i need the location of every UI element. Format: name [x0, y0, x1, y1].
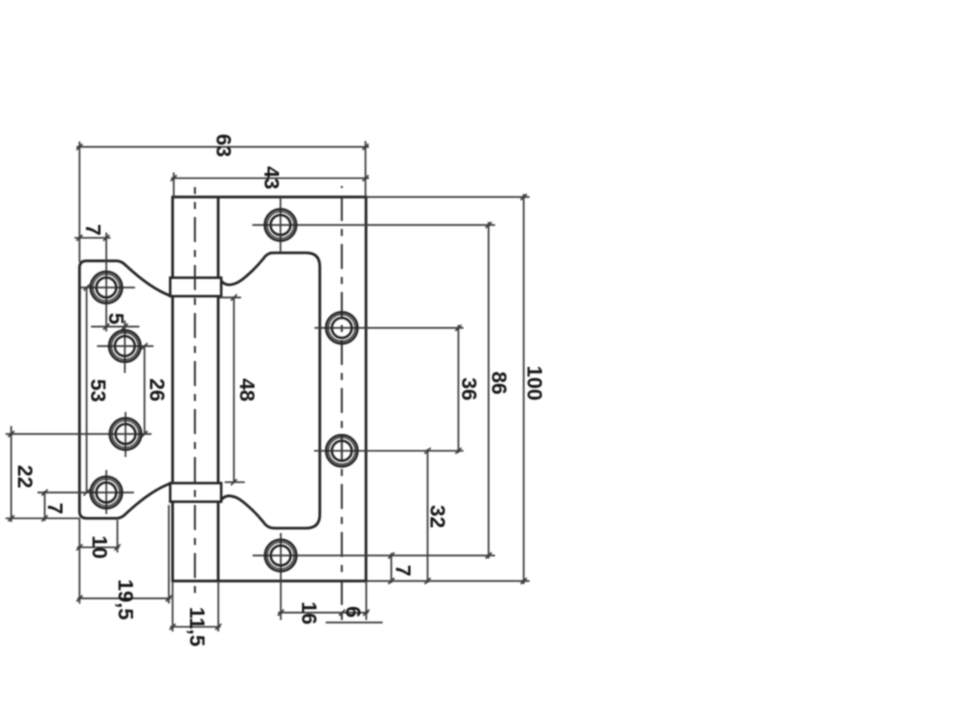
- dimension line 86: [488, 222, 490, 559]
- svg-text:7: 7: [43, 503, 66, 515]
- hole P1 vertical centerline: [280, 199, 282, 252]
- hole P2 horizontal extension: [315, 327, 464, 329]
- hole L2: [109, 330, 140, 361]
- hole P3: [326, 435, 357, 466]
- svg-text:11,5: 11,5: [185, 607, 208, 647]
- knuckle right fold line: [217, 197, 220, 581]
- plate holes centerline: [341, 186, 343, 620]
- hole L3 horizontal centerline and 22 extension: [6, 433, 152, 435]
- svg-text:16: 16: [297, 601, 320, 624]
- extension line 63/43 right: [365, 141, 367, 197]
- extension line plate bottom right: [366, 580, 530, 582]
- hole P4 horizontal extension: [253, 555, 495, 557]
- hole L4 horizontal centerline and 7 extension: [38, 492, 135, 494]
- extension tick 48 bottom: [225, 481, 245, 483]
- dimension line 48: [233, 298, 235, 483]
- dimension line 32: [427, 449, 429, 583]
- svg-text:19,5: 19,5: [114, 579, 137, 620]
- dimension line 10: [77, 546, 120, 548]
- right plate outline: [173, 197, 366, 581]
- svg-text:7: 7: [391, 565, 414, 577]
- svg-text:32: 32: [425, 505, 448, 528]
- svg-text:63: 63: [212, 134, 235, 157]
- left leaf outline: [80, 261, 171, 518]
- extension line 10/19.5 left: [79, 518, 81, 603]
- dimension line 5: [91, 326, 139, 328]
- extension line 11.5 right: [217, 581, 219, 632]
- svg-text:7: 7: [81, 224, 104, 236]
- left leaf top curve: [117, 261, 170, 296]
- hole L3: [110, 418, 141, 449]
- extension line plate right edge bottom: [365, 581, 367, 620]
- svg-text:86: 86: [487, 371, 510, 394]
- svg-text:100: 100: [523, 365, 546, 400]
- hole L1 horizontal centerline: [81, 287, 135, 289]
- hole L3 vertical centerline: [125, 412, 127, 457]
- knuckle top band: [170, 278, 221, 297]
- knuckle bottom band: [170, 483, 221, 502]
- hole L4: [91, 477, 122, 508]
- plate recess cutout outline: [219, 253, 320, 528]
- svg-text:36: 36: [457, 377, 480, 400]
- dimension line 19.5: [78, 597, 172, 599]
- dimension line 53: [86, 288, 88, 493]
- svg-text:26: 26: [145, 378, 168, 401]
- extension line 43 left: [173, 173, 175, 198]
- leader line under label 6: [326, 622, 383, 624]
- dimension line 11.5: [170, 626, 221, 628]
- hole P2: [326, 312, 357, 343]
- hole P1: [265, 209, 296, 240]
- extension line 19.5 right: [168, 505, 170, 604]
- dimension line 43: [171, 177, 369, 179]
- hole P4: [265, 540, 296, 571]
- dimension line 16 and 6: [278, 612, 369, 614]
- hole P4 vertical extension: [280, 533, 282, 620]
- svg-text:10: 10: [88, 535, 111, 558]
- hole L2 horizontal centerline: [97, 345, 154, 347]
- extension tick 48 top: [219, 297, 241, 299]
- svg-text:22: 22: [13, 465, 36, 488]
- svg-text:6: 6: [341, 606, 364, 618]
- dimension line 100: [523, 194, 525, 584]
- dimension line 7 lower-left: [44, 491, 46, 521]
- dimension line 36: [457, 325, 459, 453]
- extension line 63 left: [79, 142, 81, 263]
- hole P1 horizontal extension: [252, 224, 495, 226]
- svg-text:53: 53: [86, 379, 109, 402]
- extension line hole L1 vertical: [105, 233, 107, 332]
- oblique end ticks: [8, 144, 527, 630]
- extension line hole L2 vertical: [124, 321, 126, 374]
- dimension line 63: [77, 146, 370, 148]
- hole L1: [91, 272, 122, 303]
- svg-text:43: 43: [260, 166, 283, 189]
- dimension line 7 top-left: [75, 237, 111, 239]
- svg-text:5: 5: [104, 313, 127, 325]
- hole L4 vertical centerline: [105, 470, 107, 514]
- extension line plate top right: [366, 196, 530, 198]
- svg-text:48: 48: [235, 378, 258, 402]
- extension line 11.5 left: [172, 581, 174, 632]
- knuckle centerline: [194, 187, 196, 594]
- extension line 22 bottom: [6, 517, 80, 519]
- dimension line 22: [10, 426, 12, 522]
- hole P3 horizontal extension: [314, 450, 464, 452]
- dimension line 26: [144, 346, 146, 434]
- dimension line 7 bottom-right: [390, 553, 392, 583]
- extension line 10 right: [116, 520, 118, 553]
